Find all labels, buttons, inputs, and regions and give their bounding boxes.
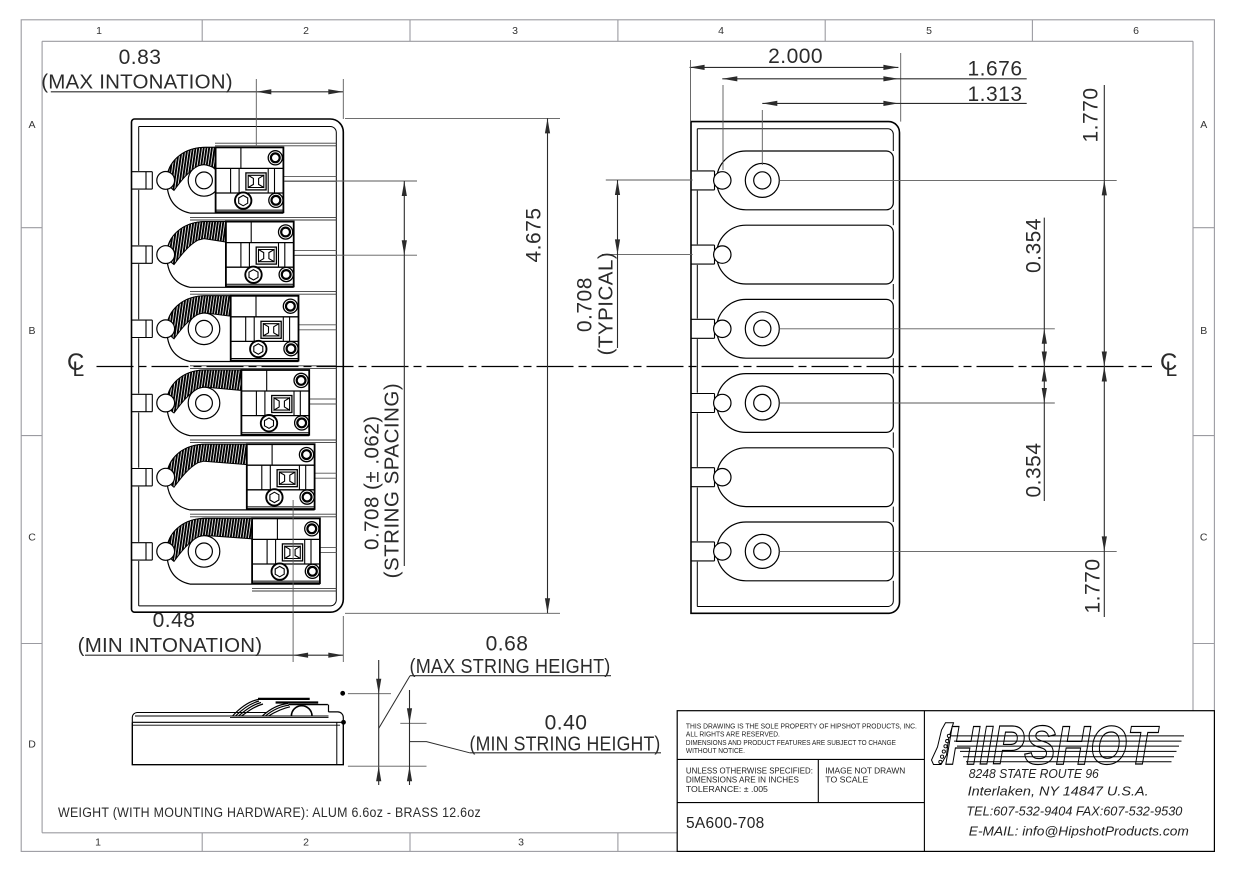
height screw bottom-right row 4 (295, 416, 309, 430)
bottom view inner edge left segments (696, 129, 698, 170)
svg-text:C: C (1200, 532, 1208, 544)
svg-text:0.83: 0.83 (119, 46, 162, 69)
svg-text:4.675: 4.675 (523, 207, 546, 262)
height screw top-right row 4 (294, 373, 308, 387)
dimension 0.48 extension lines (292, 500, 294, 662)
dimension 0.48 leader and dim line (85, 654, 343, 656)
string slot bottom view row 5 (717, 448, 894, 507)
mount screw counterbore row 6 (745, 534, 779, 568)
saddle block row 1 (216, 147, 284, 212)
svg-text:1: 1 (96, 25, 102, 37)
svg-text:8248 STATE ROUTE 96: 8248 STATE ROUTE 96 (969, 766, 1100, 781)
string line row 4 (309, 398, 336, 400)
string anchor tab row 1 (132, 171, 153, 173)
dimension 0.354 shared dim line (1043, 218, 1045, 501)
mount screw counterbore row 1 (745, 163, 779, 197)
intonation screw bowtie row 6 (282, 544, 302, 561)
string slot bottom view row 6 (717, 522, 894, 581)
saddle row 1 track outline (167, 147, 284, 213)
sheet border inner frame (42, 40, 1193, 42)
hex set screw row 1 (235, 192, 251, 208)
svg-text:TEL:607-532-9404 FAX:607-532-9: TEL:607-532-9404 FAX:607-532-9530 (966, 804, 1183, 819)
dimension 1.676 dim line (722, 78, 1026, 80)
svg-text:L: L (73, 358, 85, 381)
height screw top-right row 3 (283, 299, 297, 313)
centerline symbol right (1160, 349, 1177, 381)
min height dim line and arrows (409, 690, 411, 785)
intonation screw bowtie row 3 (261, 321, 281, 338)
zone divider ticks left (21, 227, 42, 229)
svg-text:4: 4 (718, 25, 724, 37)
svg-text:1.770: 1.770 (1082, 558, 1105, 613)
string slots between saddle fingers (215, 142, 336, 144)
dimension 1.676 extension line (722, 85, 724, 170)
svg-text:Interlaken, NY 14847 U.S.A.: Interlaken, NY 14847 U.S.A. (968, 784, 1149, 799)
centerline symbol left (67, 349, 84, 381)
string anchor tab row 2 (132, 245, 153, 247)
anchor tab bottom view row 4 (691, 393, 715, 395)
height screw bottom-right row 1 (269, 193, 283, 207)
string hole bottom view row 6 (714, 543, 731, 560)
hex set screw row 4 (261, 415, 277, 431)
anchor tab bottom view row 6 (691, 541, 715, 543)
saddle spring row 2 (167, 222, 225, 265)
dimension 0.83 extension lines (255, 79, 257, 147)
intonation screw bowtie row 1 (246, 173, 266, 190)
string hole bottom view row 4 (714, 394, 731, 411)
string line row 1 (283, 175, 336, 177)
dimension 0.708 TYPICAL extension lines (606, 179, 693, 181)
side view deck lines (132, 713, 266, 723)
anchor tab bottom view row 5 (691, 467, 715, 469)
svg-text:0.708: 0.708 (573, 277, 596, 332)
anchor tab bottom view row 3 (691, 318, 715, 320)
height screw top-right row 2 (279, 225, 293, 239)
svg-text:5: 5 (926, 25, 932, 37)
min string height leader (410, 742, 470, 753)
saddle spring row 1 (167, 147, 215, 190)
saddle row 6 track outline (167, 518, 320, 584)
side view base plate (132, 722, 343, 764)
svg-text:0.354: 0.354 (1023, 442, 1046, 497)
svg-text:B: B (28, 325, 35, 337)
hex set screw row 6 (272, 563, 288, 579)
svg-text:0.48: 0.48 (153, 609, 196, 632)
string hole bottom view row 3 (714, 320, 731, 337)
string line row 2 (294, 250, 337, 252)
svg-text:TOLERANCE: ± .005: TOLERANCE: ± .005 (686, 784, 768, 794)
saddle pivot ring row 6 (188, 536, 220, 568)
string ball hole row 3 (157, 320, 175, 338)
svg-text:E-MAIL: info@HipshotProducts.c: E-MAIL: info@HipshotProducts.com (969, 824, 1189, 839)
string line row 6 (320, 546, 336, 548)
svg-text:(MIN STRING HEIGHT): (MIN STRING HEIGHT) (470, 732, 661, 755)
bottom view inner edge right segments (892, 134, 894, 151)
max string height reference dot (340, 691, 345, 696)
svg-text:D: D (28, 739, 36, 751)
saddle pivot hole row 6 (196, 543, 213, 560)
Hipshot logo headstock (932, 723, 954, 765)
mount screw counterbore row 4 (745, 386, 779, 420)
svg-text:A: A (28, 119, 35, 131)
side view right end ledge (329, 712, 344, 722)
side view barrel semicircle (291, 706, 312, 716)
string ball hole row 2 (157, 246, 175, 264)
saddle spring row 3 (167, 296, 230, 339)
svg-text:3: 3 (512, 25, 518, 37)
svg-text:6: 6 (1133, 25, 1139, 37)
string hole bottom view row 5 (714, 469, 731, 486)
mount screw counterbore row 3 (745, 312, 779, 346)
zone divider ticks right (1193, 227, 1214, 229)
svg-text:2: 2 (303, 837, 309, 849)
saddle block row 4 (241, 370, 309, 435)
string hole bottom view row 1 (714, 172, 731, 189)
saddle spring row 6 (167, 518, 252, 561)
height screw bottom-right row 5 (300, 490, 314, 504)
dimension 1.313 extension line (761, 110, 763, 165)
bottom view inner edge lines (697, 129, 893, 134)
string slot bottom view row 2 (717, 225, 894, 284)
svg-text:0.40: 0.40 (545, 712, 588, 735)
dimension 1.770 top dim line (1103, 85, 1105, 367)
hole reference lines right view (779, 179, 1116, 181)
saddle block row 3 (231, 296, 299, 361)
height screw bottom-right row 3 (284, 342, 298, 356)
bridge plate top view inner edge left segments (138, 127, 140, 171)
dimension 2.000 extension lines (690, 60, 692, 122)
saddle pivot ring row 3 (188, 313, 220, 345)
hex set screw row 5 (266, 489, 282, 505)
zone divider ticks bottom (201, 833, 203, 852)
svg-text:1.770: 1.770 (1080, 87, 1103, 142)
max height dim line and arrows (378, 660, 380, 785)
bridge plate top view outline (132, 119, 344, 612)
svg-text:(MAX INTONATION): (MAX INTONATION) (41, 71, 233, 94)
string slot bottom view row 1 (717, 151, 894, 210)
string ball hole row 1 (157, 172, 175, 190)
string ball hole row 6 (157, 543, 175, 561)
svg-text:0.354: 0.354 (1023, 218, 1046, 273)
bridge plate top view inner edge top right bottom (139, 127, 337, 606)
anchor tab bottom view row 1 (691, 170, 715, 172)
saddle block row 6 (252, 518, 320, 583)
svg-text:2.000: 2.000 (768, 45, 823, 68)
side view saddle stepped bars (258, 698, 310, 700)
height screw top-right row 1 (268, 151, 282, 165)
saddle pivot hole row 4 (196, 395, 213, 412)
svg-text:(MAX STRING HEIGHT): (MAX STRING HEIGHT) (410, 655, 611, 678)
height screw bottom-right row 2 (279, 267, 293, 281)
svg-text:5A600-708: 5A600-708 (686, 815, 765, 832)
dimension 0.83 leader and dim line (51, 91, 344, 93)
svg-text:B: B (1200, 325, 1207, 337)
dimension 0.708 string spacing dim line (403, 181, 405, 566)
min height level line (400, 722, 426, 724)
bottom level extension line (348, 765, 427, 767)
intonation screw bowtie row 2 (256, 247, 276, 264)
dimension 1.770 bottom dim line (1103, 367, 1105, 618)
height screw top-right row 5 (299, 448, 313, 462)
svg-text:1: 1 (95, 837, 101, 849)
zone divider ticks top (201, 20, 203, 42)
saddle pivot hole row 3 (196, 320, 213, 337)
Hipshot logo speed lines (951, 735, 1184, 737)
string slot bottom view row 3 (717, 299, 894, 358)
dimension 0.708 string spacing extension lines (284, 180, 417, 182)
svg-text:WEIGHT (WITH MOUNTING HARDWARE: WEIGHT (WITH MOUNTING HARDWARE): ALUM 6.… (58, 805, 481, 820)
svg-text:TO SCALE: TO SCALE (825, 775, 868, 785)
svg-text:A: A (1200, 119, 1207, 131)
svg-text:0.68: 0.68 (486, 632, 529, 655)
dimension 4.675 extension lines (345, 117, 560, 119)
svg-text:WITHOUT NOTICE.: WITHOUT NOTICE. (686, 746, 745, 755)
max height level line (348, 693, 391, 695)
svg-text:3: 3 (518, 837, 524, 849)
svg-text:(MIN INTONATION): (MIN INTONATION) (78, 634, 263, 657)
height screw top-right row 6 (305, 522, 319, 536)
saddle pivot ring row 1 (188, 165, 220, 197)
height screw bottom-right row 6 (305, 564, 319, 578)
saddle pivot hole row 1 (196, 172, 213, 189)
hex set screw row 3 (250, 341, 266, 357)
bridge plate bottom view outline (691, 122, 900, 614)
saddle pivot ring row 4 (188, 387, 220, 419)
horizontal centerline (97, 366, 1153, 368)
string line row 3 (299, 324, 337, 326)
intonation screw bowtie row 4 (272, 396, 292, 413)
side view saddle profile arcs (233, 700, 264, 717)
svg-text:2: 2 (303, 25, 309, 37)
string ball hole row 4 (157, 394, 175, 412)
string slot bottom view row 4 (717, 374, 894, 433)
saddle spring row 5 (167, 444, 246, 487)
dimension 0.708 TYPICAL dim line (617, 180, 619, 348)
string line row 5 (315, 472, 337, 474)
dimension 2.000 dim line (690, 66, 899, 68)
saddle row 4 track outline (167, 370, 309, 436)
string anchor tab row 6 (132, 542, 153, 544)
string anchor tab row 3 (132, 319, 153, 321)
saddle row 3 track outline (167, 296, 299, 362)
saddle block row 5 (247, 444, 315, 509)
svg-text:1.313: 1.313 (967, 83, 1022, 106)
saddle block row 2 (226, 222, 294, 287)
saddle row 5 track outline (167, 444, 315, 510)
dimension 4.675 dim line (547, 118, 549, 613)
dimension 1.313 dim line (762, 102, 1026, 104)
string anchor tab row 5 (132, 468, 153, 470)
svg-text:1.676: 1.676 (967, 58, 1022, 81)
string anchor tab row 4 (132, 393, 153, 395)
saddle row 2 track outline (167, 222, 294, 288)
intonation screw bowtie row 5 (277, 470, 297, 487)
max string height leader (379, 676, 410, 729)
svg-text:C: C (28, 532, 36, 544)
saddle spring row 4 (167, 370, 241, 413)
string hole bottom view row 2 (714, 246, 731, 263)
min string height reference dot (341, 720, 346, 725)
svg-text:(STRING SPACING): (STRING SPACING) (381, 383, 404, 579)
title block frame (677, 711, 1214, 852)
hex set screw row 2 (245, 267, 261, 283)
svg-text:L: L (1166, 358, 1178, 381)
svg-text:(TYPICAL): (TYPICAL) (595, 252, 618, 356)
anchor tab bottom view row 2 (691, 244, 715, 246)
string ball hole row 5 (157, 468, 175, 486)
